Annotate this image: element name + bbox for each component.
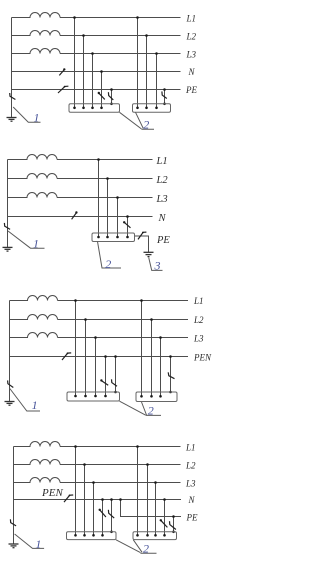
terminal L2 board1 (84, 395, 87, 398)
terminal L2 board2 (146, 534, 149, 537)
svg-text:3: 3 (154, 259, 161, 273)
winding L1 (14, 442, 61, 447)
terminal L1 board2 (136, 534, 139, 537)
node L1/drop1 (73, 16, 76, 19)
node PE/drop2 (172, 515, 175, 518)
wire drop N to board (127, 217, 129, 238)
wire drop PE to board 2 (164, 90, 166, 104)
disconnect mark on PEN drop board2 (168, 372, 174, 378)
node L2/drop1 (82, 34, 85, 37)
wire L1 (57, 159, 153, 161)
winding L3 (14, 478, 61, 483)
leader line to label 1 (10, 389, 40, 412)
svg-text:PE: PE (156, 235, 170, 246)
terminal L3 board2 (155, 107, 158, 110)
wire PEN / N (14, 499, 182, 501)
wire drop PEN-N to board 1 (105, 357, 107, 397)
terminal L3 board2 (154, 534, 157, 537)
leader line from board 1 to label 2 (116, 540, 140, 553)
wire drop L3 to board 2 (155, 483, 157, 536)
svg-text:1: 1 (32, 398, 38, 412)
svg-text:1: 1 (33, 236, 39, 250)
disconnect mark on PEN wire (62, 353, 71, 360)
neutral-point bus wire (9, 301, 11, 402)
node L2/drop2 (150, 318, 153, 321)
winding L2 (8, 174, 58, 179)
disconnect mark on N drop board1 (102, 381, 108, 385)
node N/drop2 (163, 498, 166, 501)
terminal L2 board1 (82, 107, 85, 110)
wire drop L2 to board 1 (84, 465, 86, 536)
disconnect mark on PE wire (58, 86, 68, 93)
node L3/drop2 (159, 336, 162, 339)
disconnect mark on N drop board1 (99, 93, 105, 99)
wire L2 (57, 178, 153, 180)
node N/drop (126, 215, 129, 218)
leader line from board 1 to label 2 (120, 112, 142, 129)
disconnect mark on PE drop board2 (170, 521, 176, 529)
terminal L1 board1 (74, 395, 77, 398)
svg-text:2: 2 (105, 257, 111, 271)
terminal PE board2 (163, 103, 166, 106)
node L3/drop (116, 196, 119, 199)
wire drop L1 to board 2 (141, 301, 143, 397)
wire drop N to board 1 (101, 72, 103, 108)
wire PEN (10, 356, 189, 358)
node L2/drop2 (145, 34, 148, 37)
node L1/drop2 (136, 16, 139, 19)
wire drop L1 to board 2 (137, 447, 139, 536)
distribution board 1 (diagram 3) (67, 392, 120, 401)
winding L2 (10, 315, 58, 320)
svg-text:L3: L3 (193, 333, 204, 343)
svg-text:1: 1 (35, 537, 41, 551)
terminal L1 board2 (136, 107, 139, 110)
node L2/drop (106, 177, 109, 180)
wire drop L3 to board 1 (93, 483, 95, 536)
terminal L3 board1 (94, 395, 97, 398)
winding L3 (8, 193, 58, 198)
terminal N board2 (163, 534, 166, 537)
leader line to label 1 (8, 231, 45, 248)
wire drop L2 to board 2 (147, 465, 149, 536)
node at N-drop1 disconnect (99, 509, 101, 511)
wire drop L2 to board 1 (85, 320, 87, 397)
node PEN/PE-branch (119, 498, 122, 501)
svg-text:L1: L1 (186, 13, 197, 23)
node PEN/dropPE (114, 355, 117, 358)
wire drop L1 to board 1 (74, 18, 76, 108)
node at N-drop disconnect (100, 379, 102, 381)
node at N-drop2 disconnect (160, 519, 162, 521)
wire L2 (60, 35, 181, 37)
wire drop L3 to board 2 (160, 338, 162, 397)
terminal PEN board2 (169, 391, 172, 394)
distribution board 2 (diagram 3) (136, 392, 177, 402)
svg-text:L2: L2 (193, 315, 204, 325)
node L1/drop2 (140, 299, 143, 302)
disconnect mark on PE drop board1 (112, 379, 118, 386)
wire L1 (60, 446, 181, 448)
disconnect mark on N wire (59, 70, 64, 76)
node PEN/dropPE1 (110, 498, 113, 501)
leader line to label 2 (98, 242, 122, 269)
wire L3 (57, 197, 153, 199)
disconnect mark on PE conductor (138, 232, 146, 239)
node L1/drop (97, 158, 100, 161)
terminal PE board1 (110, 103, 113, 106)
wire drop L3 to board 1 (92, 54, 94, 108)
svg-text:L1: L1 (193, 296, 204, 306)
wire drop PE to board 1 (111, 500, 113, 532)
disconnect mark on N drop (125, 223, 131, 228)
svg-text:1: 1 (34, 111, 40, 125)
wire drop PE to board 2 (173, 517, 175, 532)
wire L2 (60, 464, 181, 466)
terminal PE board2 (172, 531, 175, 534)
disconnect mark on N wire (72, 213, 77, 219)
leader line to label 1 (15, 534, 44, 548)
node N/drop1 (100, 70, 103, 73)
distribution board (diagram 2) (92, 233, 135, 242)
terminal L1 board1 (74, 534, 77, 537)
wire drop L3 to board 2 (156, 54, 158, 108)
winding L1 (8, 155, 58, 160)
disconnect mark on earthing conductor (8, 380, 14, 387)
svg-text:2: 2 (143, 542, 149, 556)
winding L2 (12, 31, 61, 36)
wire drop L2 to board 1 (83, 36, 85, 108)
neutral-point bus wire (11, 18, 13, 118)
terminal L2 board1 (83, 534, 86, 537)
disconnect mark on earthing conductor (4, 223, 10, 230)
node PE/drop2 (163, 88, 166, 91)
terminal L2 board2 (150, 395, 153, 398)
terminal L2 board2 (145, 107, 148, 110)
disconnect mark on earthing conductor (10, 93, 16, 100)
wire L1 (58, 300, 189, 302)
wire drop N to board 1 (102, 500, 104, 536)
node PE/drop1 (110, 88, 113, 91)
earth electrode symbol 1 (7, 118, 17, 122)
wire N (8, 216, 153, 218)
node L2/drop1 (84, 318, 87, 321)
wire L3 (60, 482, 181, 484)
node PEN/drop2 (169, 355, 172, 358)
earth electrode symbol (source) (3, 247, 13, 251)
node PEN/dropN (104, 355, 107, 358)
wire drop N to board 2 (164, 500, 166, 536)
disconnect mark on PEN wire (64, 495, 73, 502)
terminal N board1 (100, 107, 103, 110)
terminal PE board1 (114, 391, 117, 394)
wire L3 (60, 53, 181, 55)
terminal N board (126, 236, 129, 239)
terminal L1 board (97, 236, 100, 239)
svg-text:L1: L1 (156, 156, 168, 167)
terminal PE board1 (110, 531, 113, 534)
svg-text:L3: L3 (156, 194, 168, 205)
wire drop L3 to board 1 (95, 338, 97, 397)
wire drop L1 to board 1 (75, 447, 77, 536)
terminal N board1 (104, 395, 107, 398)
winding L3 (12, 49, 61, 54)
svg-text:PE: PE (185, 85, 197, 95)
svg-text:L2: L2 (185, 460, 196, 470)
wire drop L1 to board 2 (137, 18, 139, 108)
node L1/drop1 (74, 299, 77, 302)
svg-text:L2: L2 (186, 32, 197, 42)
joint on PE-conductor mark (142, 232, 144, 234)
wire drop PE to board 1 (111, 90, 113, 104)
distribution board 2 (box 2) (133, 104, 171, 113)
svg-text:2: 2 (148, 404, 154, 418)
earth electrode symbol 3 (5, 402, 15, 406)
wire PE branch (121, 500, 182, 517)
wire drop L1 to board 1 (75, 301, 77, 397)
wire PE from board to local earth (135, 236, 149, 252)
svg-text:PEN: PEN (41, 487, 63, 499)
leader line to label 3 (149, 258, 163, 271)
node L3/drop1 (91, 52, 94, 55)
terminal L1 board1 (73, 107, 76, 110)
earth electrode symbol (load) (144, 252, 154, 256)
earth electrode symbol 4 (9, 544, 19, 548)
disconnect mark on PE drop board1 (108, 510, 114, 518)
wire L3 (58, 337, 189, 339)
wire drop PEN to board 2 (170, 357, 172, 393)
neutral-point bus wire (7, 160, 9, 248)
joint on PEN-wire mark (67, 352, 69, 354)
svg-text:L1: L1 (185, 442, 196, 452)
distribution board 1 (diagram 4) (67, 532, 117, 540)
svg-text:PEN: PEN (193, 352, 212, 362)
terminal L3 board2 (159, 395, 162, 398)
node at N-drop disconnect (123, 221, 125, 223)
wire PE (12, 89, 181, 91)
node L3/drop2 (154, 481, 157, 484)
terminal N board1 (101, 534, 104, 537)
svg-text:2: 2 (143, 117, 149, 131)
node L1/drop1 (74, 445, 77, 448)
svg-text:L3: L3 (185, 478, 196, 488)
node L3/drop2 (155, 52, 158, 55)
neutral-point bus wire (13, 447, 15, 544)
terminal L3 board1 (92, 534, 95, 537)
svg-text:PE: PE (186, 512, 198, 522)
winding L1 (10, 296, 58, 301)
leader line from board 2 to label 2 (142, 402, 162, 415)
winding L3 (10, 333, 58, 338)
terminal L2 board (106, 236, 109, 239)
terminal L3 board (116, 236, 119, 239)
distribution board 2 (box 1) (69, 104, 120, 113)
wire drop L2 to board (107, 179, 109, 238)
wire drop L2 to board 2 (151, 320, 153, 397)
svg-text:N: N (188, 67, 196, 77)
svg-text:N: N (158, 213, 167, 224)
winding L1 (12, 13, 61, 18)
wire N (12, 71, 181, 73)
node L3/drop1 (94, 336, 97, 339)
distribution board 2 (diagram 4) (133, 532, 177, 540)
node PEN/dropN1 (101, 498, 104, 501)
leader line from board 1 to label 2 (120, 401, 146, 415)
svg-text:L2: L2 (156, 175, 169, 186)
joint on PEN-wire mark (69, 495, 71, 497)
terminal L1 board2 (140, 395, 143, 398)
node L3/drop1 (92, 481, 95, 484)
disconnect mark on N drop board1 (100, 510, 106, 517)
svg-text:N: N (188, 495, 196, 505)
joint on PE-wire mark (64, 86, 66, 88)
leader line to label 1 (13, 107, 40, 122)
wire drop L3 to board (117, 198, 119, 238)
disconnect mark on N drop board2 (161, 521, 167, 528)
disconnect mark on earthing conductor (10, 519, 16, 526)
wire drop L1 to board (98, 160, 100, 238)
wire drop L2 to board 2 (146, 36, 148, 108)
svg-text:L3: L3 (186, 50, 197, 60)
wire L2 (58, 319, 189, 321)
terminal L3 board1 (91, 107, 94, 110)
disconnect mark on PE drop board2 (162, 91, 167, 98)
node at N-wire disconnect (75, 211, 77, 213)
node L1/drop2 (136, 445, 139, 448)
node L2/drop1 (83, 463, 86, 466)
winding L2 (14, 460, 61, 465)
node at N-drop disconnect (98, 92, 100, 94)
node at N-wire disconnect (63, 68, 65, 70)
leader line from board 2 to label 2 (136, 112, 155, 129)
disconnect mark on PE drop board1 (108, 92, 113, 100)
wire L1 (60, 17, 181, 19)
leader line from board 2 to label 2 (133, 540, 156, 553)
wire drop PEN-PE to board 1 (115, 357, 117, 393)
node L2/drop2 (146, 463, 149, 466)
